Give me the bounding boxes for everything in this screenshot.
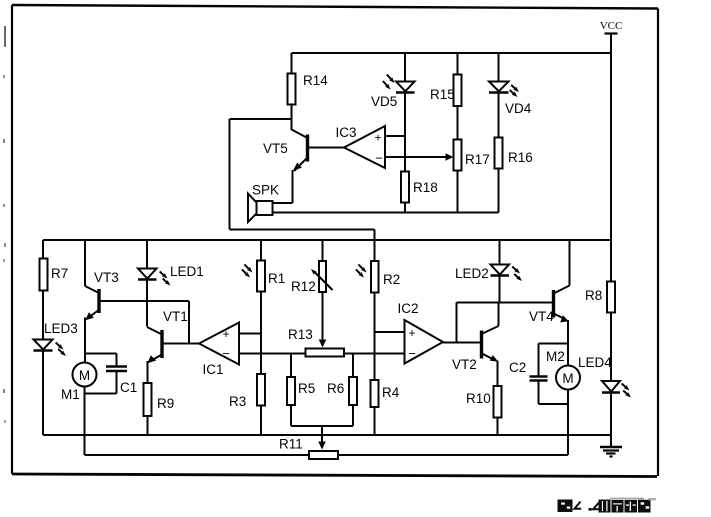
photoresistor R12 <box>291 240 333 348</box>
resistor R10 <box>466 386 502 418</box>
svg-text:IC2: IC2 <box>397 301 418 316</box>
speaker SPK <box>248 183 279 223</box>
transistor VT3 <box>85 240 119 363</box>
svg-text:R14: R14 <box>303 73 328 88</box>
motor M1 <box>61 363 97 456</box>
svg-text:R6: R6 <box>327 381 344 396</box>
svg-text:VT3: VT3 <box>94 270 119 285</box>
svg-text:VCC: VCC <box>600 20 623 32</box>
resistor R16 <box>495 138 533 169</box>
wire VT1 base <box>162 343 199 345</box>
box around VT5 and SPK <box>230 119 375 240</box>
svg-text:IC3: IC3 <box>335 125 356 140</box>
svg-text:VT2: VT2 <box>452 357 477 372</box>
svg-text:VT4: VT4 <box>529 309 554 324</box>
transistor VT2 <box>452 303 499 436</box>
op-amp IC1 <box>199 323 239 378</box>
wire bottom rail of upper section <box>273 212 499 214</box>
wire R5 R6 bottoms to R11 wiper arrow <box>291 426 353 450</box>
svg-text:VT1: VT1 <box>163 309 188 324</box>
LED LED4 <box>578 355 631 398</box>
svg-text:R5: R5 <box>298 381 315 396</box>
wire left branch R7 LED3 <box>42 240 44 435</box>
svg-text:−: − <box>408 346 416 361</box>
wire VD4 R16 branch <box>498 53 500 213</box>
LED LED1 <box>138 240 204 327</box>
svg-text:LED3: LED3 <box>44 321 78 336</box>
resistor R5 <box>287 354 315 427</box>
svg-text:R15: R15 <box>430 87 455 102</box>
svg-text:LED2: LED2 <box>455 266 489 281</box>
transistor VT1 <box>147 309 188 435</box>
capacitor C2 <box>509 344 568 405</box>
potentiometer R11 <box>85 437 569 460</box>
svg-text:R4: R4 <box>382 385 400 400</box>
svg-text:M: M <box>562 371 573 386</box>
resistor R9 <box>144 383 175 416</box>
svg-text:+: + <box>408 326 415 340</box>
LED VD4 <box>489 82 532 117</box>
svg-text:R18: R18 <box>413 180 438 195</box>
svg-text:R1: R1 <box>268 271 285 286</box>
photoresistor R2 <box>356 240 400 435</box>
resistor R15 <box>430 75 462 107</box>
wire VCC rail vertical <box>610 34 612 447</box>
svg-text:R3: R3 <box>229 394 246 409</box>
svg-text:R2: R2 <box>383 272 400 287</box>
wire VT5 base <box>308 147 345 149</box>
wire bottom rail of lower section <box>43 434 611 436</box>
svg-text:M: M <box>79 368 90 383</box>
svg-text:R8: R8 <box>585 288 602 303</box>
wire IC3 minus to R17 wiper arrow <box>385 153 454 161</box>
svg-text:C2: C2 <box>509 360 526 375</box>
capacitor C1 <box>85 354 137 396</box>
svg-text:VD5: VD5 <box>371 94 397 109</box>
transistor VT5 <box>263 130 308 204</box>
wire IC3 plus input <box>385 135 405 137</box>
wire top rail of lower section <box>43 239 611 241</box>
LED LED2 <box>455 240 522 303</box>
wire IC2 output to VT2 base <box>443 303 481 343</box>
resistor R14 <box>288 73 329 105</box>
svg-text:M1: M1 <box>61 387 80 402</box>
svg-text:M2: M2 <box>546 349 565 364</box>
svg-text:IC1: IC1 <box>202 362 223 377</box>
wire VT3 base node <box>99 301 189 344</box>
resistor R8 <box>585 282 615 313</box>
svg-text:+: + <box>222 327 229 341</box>
op-amp IC2 <box>397 301 443 364</box>
wire IC1 minus rail to R13 <box>239 353 306 355</box>
svg-text:C1: C1 <box>120 380 137 395</box>
resistor R7 <box>40 259 69 291</box>
wire collector node to VT4 base <box>457 302 554 304</box>
wire IC1 plus input <box>239 333 261 335</box>
wire IC2 plus input <box>375 331 405 333</box>
svg-text:R10: R10 <box>466 391 491 406</box>
motor M2 <box>546 349 580 455</box>
svg-text:SPK: SPK <box>252 183 279 198</box>
svg-text:R12: R12 <box>291 279 316 294</box>
svg-text:R17: R17 <box>465 152 490 167</box>
wire top rail of upper section <box>292 52 612 54</box>
svg-text:−: − <box>375 151 383 166</box>
svg-text:R7: R7 <box>51 266 68 281</box>
svg-text:+: + <box>374 131 381 145</box>
svg-text:VD4: VD4 <box>505 101 532 116</box>
svg-text:R13: R13 <box>288 327 313 342</box>
LED LED3 <box>34 321 78 356</box>
wire R15 R17 branch <box>457 53 459 213</box>
wire R14 branch <box>291 53 293 130</box>
resistor R4 <box>371 380 400 407</box>
wire R13 to IC2 minus <box>344 353 405 355</box>
resistor R18 <box>401 172 438 203</box>
resistor R6 <box>327 354 357 427</box>
svg-text:R16: R16 <box>508 150 533 165</box>
svg-text:LED1: LED1 <box>170 264 204 279</box>
potentiometer R17 <box>454 140 490 171</box>
svg-text:R9: R9 <box>157 396 174 411</box>
photodiode VD5 <box>371 53 415 213</box>
scan noise marks on left margin <box>4 26 5 423</box>
svg-text:VT5: VT5 <box>263 141 288 156</box>
resistor R3 <box>229 374 265 409</box>
svg-text:LED4: LED4 <box>578 355 612 370</box>
svg-text:R11: R11 <box>279 437 303 452</box>
caption figure title <box>558 498 657 513</box>
op-amp IC3 <box>335 125 385 168</box>
ground <box>600 447 622 457</box>
VCC terminal <box>600 20 623 34</box>
svg-text:−: − <box>222 346 230 361</box>
transistor VT4 <box>529 240 570 366</box>
photoresistor R1 <box>242 240 285 435</box>
potentiometer R13 <box>288 327 344 357</box>
